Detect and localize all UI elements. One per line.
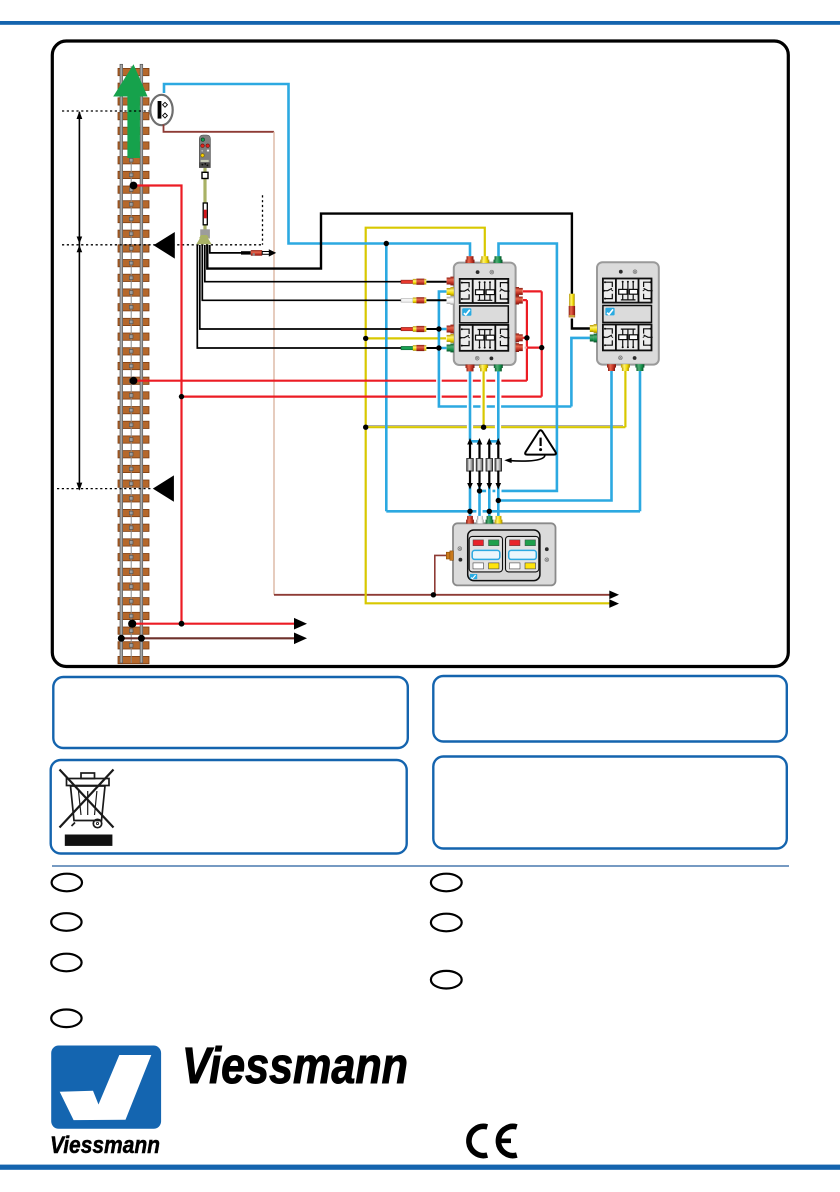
warning triangle (525, 430, 556, 454)
list oval L2 (51, 913, 81, 931)
list oval L1 (52, 874, 82, 892)
list oval R2 (431, 914, 462, 932)
wire cyan net C (module2 red to lamp4) (498, 370, 611, 501)
panel top plug green (486, 516, 494, 524)
module U1 (switch module) (447, 256, 523, 371)
info box 3 (51, 760, 407, 854)
info box 2 (433, 676, 787, 742)
list oval R3 (431, 971, 462, 989)
arrow from warning triangle to lamps (504, 455, 545, 463)
junction dots (118, 182, 545, 642)
wire black w6 (197, 245, 401, 348)
wire red dashed stub (516, 347, 527, 349)
list oval R1 (431, 874, 462, 892)
wire black w5 (200, 245, 402, 329)
wire red net upper (y380) (134, 300, 527, 381)
control panel U3 (446, 516, 555, 585)
wire red net 1 (track feed) (132, 186, 542, 624)
panel screws (458, 547, 462, 551)
dimension line with arrows (77, 111, 83, 491)
wire black w4 (202, 245, 401, 300)
panel top plug yellow (495, 516, 503, 524)
wire cyan vertical to panel bus (385, 244, 388, 512)
gray companion line of yellow bus (366, 425, 623, 427)
dotted vertical marker at signal (262, 195, 264, 245)
panel left half (469, 536, 502, 572)
module U2 (switch module) (590, 262, 659, 371)
wire cyan net B (module1 green top to lamp2) (480, 244, 557, 491)
lamp L1 (467, 438, 474, 490)
w6 lead and connector (401, 345, 426, 351)
signal S1 (light signal) (196, 135, 211, 244)
lamp L3 (486, 438, 493, 490)
dimension dotted line A (top) (62, 110, 150, 112)
Viessmann logo mark (51, 1046, 161, 1129)
info box 1 (53, 677, 408, 748)
w4 lead and connector (401, 297, 426, 303)
panel left brass plug (446, 551, 453, 560)
list oval L4 (51, 1010, 81, 1028)
w2 inline connector (vertical) (569, 294, 575, 318)
wire yellow to module1 left (366, 337, 446, 339)
wire brown bottom bus (274, 594, 611, 596)
separator rule (52, 865, 789, 867)
header rule (0, 21, 840, 25)
wire red bottom rail feed (132, 623, 295, 625)
wire dark red bottom rail feed (121, 637, 294, 639)
wire black w1 (to next signal arrow) (210, 245, 241, 253)
wire yellow bus (366, 370, 626, 427)
wire cyan lamps to panel (470, 487, 498, 516)
lamp L4 (495, 438, 502, 490)
w3 lead and connector (401, 279, 426, 285)
wire red net lower (y396) (182, 291, 542, 396)
CE mark (469, 1126, 517, 1155)
footer rule (0, 1165, 840, 1170)
list oval L3 (51, 954, 81, 972)
wire tan vertical (273, 132, 275, 595)
wire cyan net D (module1 left to module2 green) (439, 292, 590, 407)
w1 ferrule and plug with arrow (241, 249, 276, 256)
panel top plug red (466, 516, 474, 524)
track (Maerklin C track, vertical) (118, 64, 149, 663)
panel logo (470, 574, 477, 579)
arrow yellow bus (609, 599, 619, 608)
contact track device (150, 95, 172, 125)
wire cyan module1 bottom to lamps (470, 370, 498, 440)
stop marker triangle 2 (153, 475, 174, 501)
svg-text:Viessmann: Viessmann (50, 1132, 160, 1159)
signal cable bundle (197, 214, 590, 348)
arrow brown bus (609, 591, 619, 600)
WEEE black bar (65, 835, 113, 846)
panel right half (506, 536, 539, 572)
wire brown from contact track (164, 125, 611, 595)
info box 4 (433, 757, 787, 849)
wire cyan lamp tie bars (470, 440, 498, 443)
mast plate red/white (203, 203, 207, 225)
w5 lead and connector (401, 326, 426, 332)
signal mast (203, 166, 206, 243)
wire black w2 (to module2 via top route) (207, 214, 572, 295)
signal base (196, 238, 211, 244)
wire cyan net A (contact to module1 red) (164, 84, 640, 516)
lamp L2 (476, 438, 483, 490)
arrow red bottom (294, 618, 307, 630)
WEEE crossed-out bin symbol (60, 770, 114, 828)
wire yellow net 1 (transformer yellow) (366, 228, 626, 604)
green direction arrow (113, 64, 147, 158)
dimension dotted line B (middle) (62, 244, 263, 246)
wire yellow module1 bottom (483, 370, 485, 427)
base plate marker (white square) (202, 172, 208, 178)
arrow dark red bottom (294, 633, 307, 645)
base clamp (200, 229, 210, 238)
wire brown panel feed (435, 555, 447, 594)
dimension dotted line C (bottom) (57, 488, 153, 490)
wire black w3 (205, 245, 402, 282)
wire cyan panel bus (386, 370, 640, 511)
diagram frame (52, 41, 788, 667)
stop marker triangle 1 (154, 232, 175, 259)
signal head (199, 135, 210, 168)
svg-text:Viessmann: Viessmann (182, 1037, 408, 1094)
panel top plug white (476, 516, 484, 524)
